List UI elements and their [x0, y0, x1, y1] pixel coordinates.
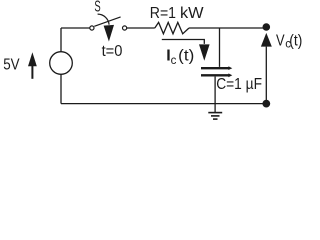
svg-text:S: S — [94, 0, 100, 16]
svg-text:t=0: t=0 — [102, 43, 123, 60]
svg-text:(t): (t) — [289, 33, 302, 50]
svg-text:V: V — [276, 33, 285, 50]
svg-text:5V: 5V — [3, 57, 20, 74]
svg-text:kW: kW — [180, 5, 205, 22]
svg-text:R=1: R=1 — [150, 5, 176, 22]
svg-text:c: c — [171, 55, 177, 67]
svg-text:(t): (t) — [178, 48, 194, 65]
svg-text:C=1 µF: C=1 µF — [216, 76, 262, 93]
